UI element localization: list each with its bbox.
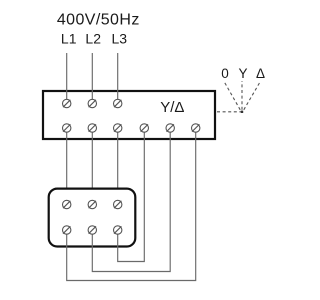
terminal switch bottom 2 — [88, 124, 96, 132]
terminal motor bottom 2 (U2) — [88, 226, 96, 234]
terminal motor bottom 3 (V2) — [114, 226, 122, 234]
wire U2 (switch terminal 5 to motor bottom terminal 2) — [92, 128, 170, 272]
selector position indicator: dashed link from switch — [217, 111, 241, 113]
switch box (Y/Δ changeover switch) — [43, 91, 215, 139]
svg-text:400V/50Hz: 400V/50Hz — [57, 12, 140, 29]
terminal switch bottom 4 — [140, 124, 148, 132]
svg-text:L2: L2 — [85, 31, 101, 47]
selector ray to Y — [241, 81, 243, 110]
wire L1 supply — [66, 53, 68, 104]
svg-text:L1: L1 — [61, 31, 77, 47]
wire V2 (switch terminal 6 to motor bottom terminal 1) — [67, 128, 196, 281]
terminal motor top 3 (W1) — [114, 200, 122, 208]
wire V1 (switch to motor top terminal 2) — [91, 128, 93, 205]
wire U1 (switch to motor top terminal 1) — [66, 128, 68, 205]
wire L2 supply — [91, 53, 93, 104]
terminal switch bottom 1 — [62, 124, 70, 132]
terminal switch bottom 6 — [192, 124, 200, 132]
wire W2 (switch terminal 4 to motor bottom terminal 3) — [118, 128, 145, 262]
wire L3 supply — [117, 53, 119, 104]
terminal switch top 2 — [88, 99, 96, 107]
terminal switch bottom 5 — [166, 124, 174, 132]
svg-text:0: 0 — [221, 66, 229, 81]
terminal switch top 3 — [114, 99, 122, 107]
motor terminal box — [49, 189, 136, 247]
selector pivot dot — [241, 111, 243, 113]
terminal motor top 2 (V1) — [88, 200, 96, 208]
terminal switch top 1 — [62, 99, 70, 107]
svg-text:Y/Δ: Y/Δ — [160, 99, 184, 116]
terminal motor bottom 1 (W2) — [62, 226, 70, 234]
svg-text:L3: L3 — [112, 31, 128, 47]
selector ray to 0 — [224, 81, 240, 110]
svg-text:Δ: Δ — [256, 66, 265, 81]
wire W1 (switch to motor top terminal 3) — [117, 128, 119, 205]
terminal switch bottom 3 — [114, 124, 122, 132]
terminal motor top 1 (U1) — [62, 200, 70, 208]
svg-text:Y: Y — [238, 66, 247, 81]
selector ray to Δ — [244, 81, 261, 110]
